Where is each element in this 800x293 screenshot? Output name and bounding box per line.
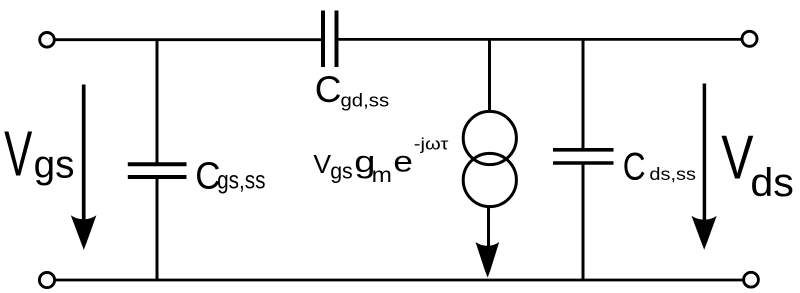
arrow Vgs (left) shaft: [82, 85, 86, 223]
svg-text:-jωτ: -jωτ: [414, 134, 449, 153]
wire: current source branch lower: [487, 207, 490, 253]
capacitor C3 Cds,ss plates: [553, 150, 614, 163]
svg-text:V: V: [4, 119, 32, 190]
arrowhead of current source output: [476, 242, 500, 278]
svg-text:e: e: [393, 144, 413, 178]
current source I1 upper circle: [463, 111, 516, 164]
svg-text:ds: ds: [750, 159, 794, 204]
terminal top-left: [40, 33, 55, 48]
top wire right segment: [339, 38, 742, 41]
capacitor C2 Cgd,ss plates: [323, 11, 337, 68]
terminal bottom-right: [744, 272, 759, 287]
svg-text:gs: gs: [34, 144, 75, 187]
svg-text:V: V: [313, 149, 331, 179]
wire: Cds branch upper: [582, 40, 585, 150]
bottom wire: [56, 279, 743, 282]
svg-text:C: C: [315, 69, 342, 110]
svg-text:C: C: [623, 145, 646, 189]
svg-text:m: m: [372, 163, 392, 187]
arrow Vds (right) shaft: [703, 84, 707, 223]
wire: Cgs branch upper: [156, 40, 159, 163]
svg-text:gs,ss: gs,ss: [217, 166, 265, 194]
terminal top-right: [742, 31, 757, 46]
wire: Cds branch lower: [582, 165, 585, 281]
top wire left segment: [56, 38, 322, 41]
arrow Vgs (left) head: [71, 215, 97, 250]
svg-text:V: V: [721, 123, 753, 192]
current source I1 lower circle: [463, 153, 516, 206]
terminal bottom-left: [39, 272, 54, 287]
capacitor C1 Cgs,ss plates: [128, 164, 187, 177]
arrow Vds (right) head: [692, 216, 717, 250]
svg-text:gd,ss: gd,ss: [341, 90, 390, 111]
wire: current source branch upper: [488, 40, 491, 112]
wire: Cgs branch lower: [156, 179, 159, 281]
svg-text:ds,ss: ds,ss: [649, 165, 696, 185]
svg-text:gs: gs: [330, 158, 353, 183]
